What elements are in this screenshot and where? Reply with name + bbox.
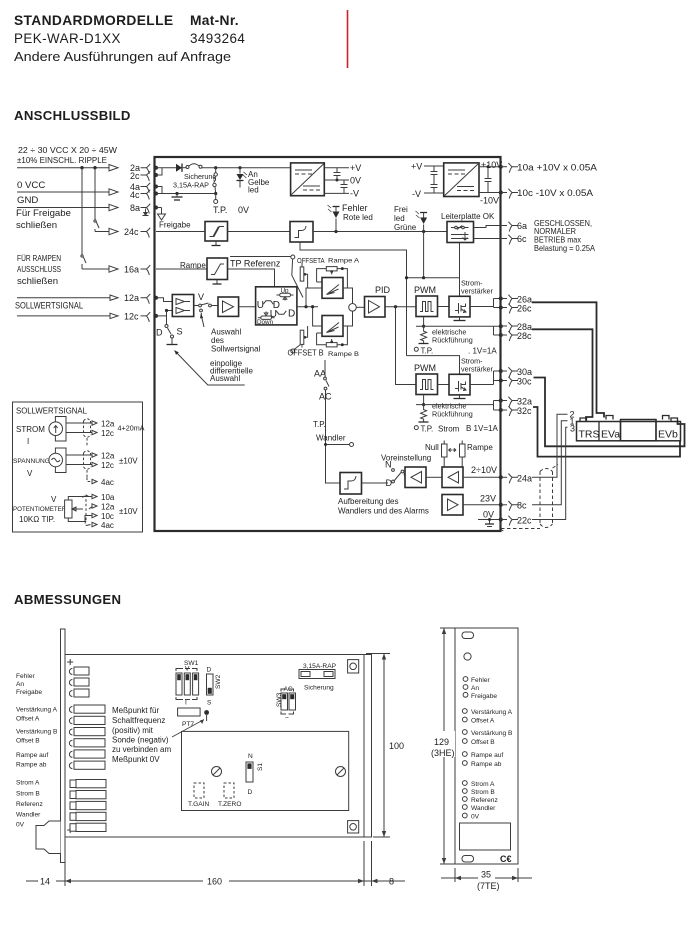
node supply-16a tap xyxy=(80,166,83,169)
capacitor C4 xyxy=(431,180,438,194)
node supply-24c tap xyxy=(93,166,96,169)
legend box xyxy=(13,402,143,532)
wire 12a jog xyxy=(156,298,172,302)
wire relay to MOSFET A xyxy=(459,243,461,297)
svg-text:led: led xyxy=(248,186,259,195)
svg-text:U: U xyxy=(257,300,264,311)
callout line Messpunkt xyxy=(172,720,204,738)
MOSFET output stage A xyxy=(449,296,470,317)
svg-text:AUSSCHLUSS: AUSSCHLUSS xyxy=(17,265,61,274)
connector EVb cell xyxy=(655,422,657,441)
ramp generator U4 xyxy=(207,258,228,280)
wire LED green down xyxy=(423,232,425,278)
wire down to Aufbereitung xyxy=(326,445,341,484)
svg-text:Referenz: Referenz xyxy=(16,801,43,808)
svg-text:Offset B: Offset B xyxy=(471,739,495,746)
svg-text:Rampe: Rampe xyxy=(467,443,493,452)
pot connector 5 xyxy=(69,750,105,758)
wire 0V out xyxy=(324,179,349,181)
pin 8c xyxy=(501,504,508,506)
screw cross bottom xyxy=(67,827,73,833)
svg-text:S: S xyxy=(177,327,183,337)
node fuse tap xyxy=(214,166,217,169)
switch arm offset A xyxy=(292,259,303,297)
screw hole xyxy=(464,653,471,660)
svg-text:EVa: EVa xyxy=(601,429,620,441)
PWM modulator B xyxy=(416,374,438,395)
wire spannung 12c xyxy=(66,464,92,466)
svg-text:N: N xyxy=(385,460,392,470)
wire pot 10a xyxy=(68,497,92,501)
buffer pair U5 xyxy=(172,295,193,317)
pin 22c xyxy=(501,519,508,521)
U/D block U7 xyxy=(256,287,297,325)
LED An Gelbe led xyxy=(239,168,241,174)
panel outline xyxy=(455,628,518,864)
svg-text:32a: 32a xyxy=(517,397,532,407)
svg-text:10a: 10a xyxy=(101,493,115,502)
svg-text:. 1V=1A: . 1V=1A xyxy=(468,347,497,356)
svg-text:12c: 12c xyxy=(124,312,139,322)
wire 8c sense line 1 xyxy=(532,421,568,505)
dimension 129 xyxy=(431,628,455,864)
wire 0V to pin 22c xyxy=(478,519,501,521)
svg-text:(7TE): (7TE) xyxy=(477,881,500,891)
svg-text:10KΩ TIP.: 10KΩ TIP. xyxy=(19,515,55,524)
svg-text:2÷10V: 2÷10V xyxy=(471,465,497,475)
svg-text:(positiv) mit: (positiv) mit xyxy=(112,726,154,735)
svg-text:Strom B: Strom B xyxy=(16,791,40,798)
svg-text:I: I xyxy=(27,437,29,446)
svg-text:ANSCHLUSSBILD: ANSCHLUSSBILD xyxy=(14,108,131,123)
label Messpunkt block xyxy=(112,706,171,764)
svg-text:30a: 30a xyxy=(517,367,532,377)
chassis arrow 8a outside xyxy=(143,209,149,216)
svg-text:TP Referenz: TP Referenz xyxy=(230,259,281,269)
pin 30c xyxy=(501,380,508,382)
svg-text:129: 129 xyxy=(434,737,449,747)
wire 32c to connector xyxy=(533,407,680,457)
svg-text:GND: GND xyxy=(17,195,38,206)
svg-text:Meßpunkt 0V: Meßpunkt 0V xyxy=(112,755,160,764)
diode D1 xyxy=(176,164,182,172)
wire +V in xyxy=(424,165,444,167)
test point dot xyxy=(204,710,209,715)
wire step to relay xyxy=(313,231,447,233)
svg-text:Offset A: Offset A xyxy=(16,716,40,723)
pin 26a xyxy=(501,298,508,300)
svg-text:AC: AC xyxy=(284,686,293,693)
wire 12c xyxy=(17,315,110,317)
svg-text:26c: 26c xyxy=(517,304,532,314)
svg-text:+V: +V xyxy=(350,163,361,173)
wire to pin 32a/32c xyxy=(494,401,501,411)
node 12c entry xyxy=(154,314,158,318)
svg-text:2c: 2c xyxy=(130,171,140,181)
svg-text:S: S xyxy=(207,700,212,707)
svg-text:D: D xyxy=(248,789,253,796)
pin 26c xyxy=(501,307,508,309)
arrow 16a xyxy=(109,266,118,272)
test point offset A xyxy=(291,255,295,259)
svg-text:Rote led: Rote led xyxy=(343,213,373,222)
pot connector 1 xyxy=(69,705,105,713)
svg-text:4+20mA: 4+20mA xyxy=(118,424,145,433)
node clip to 0V rail xyxy=(214,192,217,195)
svg-text:Verstärkung B: Verstärkung B xyxy=(471,730,513,737)
svg-text:verstärker: verstärker xyxy=(461,287,494,296)
svg-text:Null: Null xyxy=(425,443,439,452)
wire 4a/4c join xyxy=(156,187,162,194)
pin 10a xyxy=(501,166,508,168)
test point Wandler xyxy=(326,444,350,446)
svg-text:Offset A: Offset A xyxy=(471,718,495,725)
monoflop step block U3 xyxy=(290,222,313,243)
svg-text:±10V: ±10V xyxy=(119,507,138,516)
node PID branch xyxy=(394,305,397,308)
pin 6a xyxy=(501,225,508,227)
pin 28c xyxy=(501,334,508,336)
svg-text:PWM: PWM xyxy=(414,285,436,295)
svg-text:POTENTIOMETER: POTENTIOMETER xyxy=(13,506,67,513)
pot connector 6 xyxy=(69,761,105,769)
led connector 3 xyxy=(69,689,89,697)
capacitor C1 xyxy=(334,168,341,182)
pin 32c xyxy=(501,409,508,411)
svg-text:Sonde (negativ): Sonde (negativ) xyxy=(112,736,169,745)
svg-text:3,15A-RAP: 3,15A-RAP xyxy=(303,663,337,670)
svg-text:±10% EINSCHL. RIPPLE: ±10% EINSCHL. RIPPLE xyxy=(17,156,107,165)
svg-text:D: D xyxy=(207,667,212,674)
jack 0V xyxy=(462,813,467,818)
arrow supply xyxy=(109,165,118,171)
wire sum to PID xyxy=(356,306,364,308)
bracket bottom right xyxy=(348,821,359,833)
svg-text:Referenz: Referenz xyxy=(471,797,498,804)
trimmer T.ZERO xyxy=(224,783,234,798)
svg-text:23V: 23V xyxy=(480,494,496,504)
pin 32a xyxy=(501,400,508,402)
svg-text:Verstärkung B: Verstärkung B xyxy=(16,729,58,736)
switch Freigabe external xyxy=(94,168,96,219)
red separator line xyxy=(347,10,349,68)
potentiometer symbol xyxy=(65,500,81,518)
svg-text:14: 14 xyxy=(40,877,50,887)
svg-text:12a: 12a xyxy=(101,503,115,512)
label field xyxy=(460,823,511,850)
svg-text:22 ÷ 30 VCC X 20 ÷ 45W: 22 ÷ 30 VCC X 20 ÷ 45W xyxy=(18,146,117,155)
svg-text:Schaltfrequenz: Schaltfrequenz xyxy=(112,716,165,725)
wire supply xyxy=(17,167,109,169)
wire supply rail to diode xyxy=(156,167,176,169)
svg-text:Frei: Frei xyxy=(394,205,408,214)
node 4c entry xyxy=(154,192,158,196)
svg-text:N: N xyxy=(248,753,253,760)
wire PWM B to driver xyxy=(438,384,450,386)
svg-text:-10V: -10V xyxy=(480,196,499,206)
svg-text:schließen: schließen xyxy=(17,276,58,287)
arrow 12a xyxy=(110,295,118,300)
callout einpolige differentielle Auswahl xyxy=(175,351,254,386)
svg-text:3: 3 xyxy=(570,424,575,434)
amp preset 1 xyxy=(405,467,426,488)
wire branch to amp A input xyxy=(306,288,322,307)
svg-text:Rampe auf: Rampe auf xyxy=(471,752,503,759)
svg-text:D: D xyxy=(288,309,295,320)
wire +V out xyxy=(324,167,349,169)
svg-text:Leiterplatte OK: Leiterplatte OK xyxy=(441,212,495,221)
ground 0V out xyxy=(488,518,491,521)
svg-text:I: I xyxy=(185,700,187,707)
dimension 35 xyxy=(441,868,532,891)
wire to 24c xyxy=(95,231,109,233)
svg-text:Andere Ausführungen auf Anfrag: Andere Ausführungen auf Anfrage xyxy=(14,49,231,64)
jack Wandler xyxy=(462,805,467,810)
potentiometer offset A xyxy=(300,263,307,289)
connector mid block xyxy=(621,420,657,441)
svg-text:OFFSETA: OFFSETA xyxy=(297,256,325,265)
LED Fehler rote xyxy=(328,203,373,233)
svg-text:Grüne: Grüne xyxy=(394,223,417,232)
svg-text:Freigabe: Freigabe xyxy=(159,221,191,230)
svg-text:Rampe A: Rampe A xyxy=(328,258,360,265)
svg-text:Sollwertsignal: Sollwertsignal xyxy=(211,345,261,354)
pin 10c xyxy=(501,192,508,194)
svg-text:Rückführung: Rückführung xyxy=(432,336,473,345)
svg-text:+V: +V xyxy=(411,162,422,172)
node LED An tap xyxy=(238,166,241,169)
svg-text:Mat-Nr.: Mat-Nr. xyxy=(190,13,239,28)
wire output A xyxy=(470,306,494,308)
node 2c entry xyxy=(154,173,158,177)
screw cross top xyxy=(67,659,73,665)
callout Auswahl des Sollwertsignal xyxy=(200,314,261,354)
svg-text:Fehler: Fehler xyxy=(342,203,368,213)
daughter module outline xyxy=(182,731,349,810)
svg-text:V: V xyxy=(27,469,33,478)
trimmer PT7 xyxy=(178,708,201,716)
svg-text:10c: 10c xyxy=(101,512,114,521)
pot Offset A xyxy=(462,717,467,722)
svg-text:10c -10V x 0.05A: 10c -10V x 0.05A xyxy=(517,188,593,198)
wire +10V to pin 10a xyxy=(479,166,501,168)
svg-text:Verstärkung A: Verstärkung A xyxy=(16,707,58,714)
test point TP A xyxy=(414,347,418,351)
arrow 12c xyxy=(110,313,118,318)
svg-text:3,15A-RAP: 3,15A-RAP xyxy=(173,181,209,190)
svg-text:12a: 12a xyxy=(101,452,115,461)
switch SW3 xyxy=(276,686,296,722)
pin 6c xyxy=(501,238,508,240)
wire PWM A feedback tap xyxy=(423,317,425,327)
arrow GND xyxy=(109,204,118,210)
MOSFET output stage B xyxy=(449,374,470,395)
svg-text:10a +10V x 0.05A: 10a +10V x 0.05A xyxy=(517,163,597,173)
svg-text:32c: 32c xyxy=(517,406,532,416)
svg-text:Freigabe: Freigabe xyxy=(16,689,42,696)
board labels left xyxy=(16,673,58,829)
svg-text:STROM: STROM xyxy=(16,425,45,434)
svg-text:Fehler: Fehler xyxy=(471,677,490,684)
pot Offset B xyxy=(462,739,467,744)
resistor feedback A xyxy=(421,326,427,343)
slot bottom xyxy=(462,856,474,863)
node 2a entry xyxy=(154,166,158,170)
wire 2a/2c join xyxy=(156,168,162,175)
led An xyxy=(463,685,468,690)
wire strom 12a xyxy=(66,422,92,424)
svg-text:0V: 0V xyxy=(16,822,25,829)
connector tab TRS xyxy=(580,418,587,422)
board outline xyxy=(65,655,364,838)
svg-text:Belastung = 0.25A: Belastung = 0.25A xyxy=(534,243,595,253)
wire enable loop B xyxy=(407,356,460,375)
Aufbereitung block U9 xyxy=(340,473,362,495)
svg-text:Wandler: Wandler xyxy=(316,434,346,443)
switch D/S differential xyxy=(156,311,183,345)
svg-text:T.P.: T.P. xyxy=(421,425,434,434)
PID controller U8 xyxy=(365,297,386,318)
svg-text:Freigabe: Freigabe xyxy=(471,693,497,700)
chassis arrow 8a xyxy=(156,207,162,209)
led Fehler xyxy=(463,677,468,682)
screw left xyxy=(212,767,222,777)
svg-text:T.GAIN: T.GAIN xyxy=(188,801,209,808)
switch Rampen external xyxy=(81,168,83,254)
resistor feedback B xyxy=(421,405,427,422)
dimension 160 xyxy=(26,841,405,887)
svg-text:12c: 12c xyxy=(101,461,114,470)
bracket top right xyxy=(348,660,359,673)
svg-text:SOLLWERTSIGNAL: SOLLWERTSIGNAL xyxy=(15,301,83,311)
jack Strom B xyxy=(462,789,467,794)
svg-text:24c: 24c xyxy=(124,227,139,237)
led Freigabe xyxy=(463,692,468,697)
wire PID to PWM B xyxy=(396,307,417,385)
svg-text:0 VCC: 0 VCC xyxy=(17,180,45,191)
svg-text:OFFSET B: OFFSET B xyxy=(288,349,324,358)
svg-text:Rampe ab: Rampe ab xyxy=(471,761,502,768)
svg-text:3493264: 3493264 xyxy=(190,31,245,46)
svg-text:0V: 0V xyxy=(350,176,361,186)
svg-text:B 1V=1A: B 1V=1A xyxy=(466,424,498,433)
potentiometer Rampe preset xyxy=(453,441,494,468)
svg-text:Wandler: Wandler xyxy=(471,805,496,812)
svg-text:PID: PID xyxy=(375,285,391,295)
svg-text:T.P.: T.P. xyxy=(421,347,434,356)
amp A gain block xyxy=(322,278,343,299)
wire relay to 6c xyxy=(474,238,501,240)
svg-text:160: 160 xyxy=(207,877,222,887)
wire -V out xyxy=(324,192,349,194)
wire to pin 24a xyxy=(463,476,501,478)
feedback loop Rampe B xyxy=(317,326,348,345)
current source symbol xyxy=(49,417,66,442)
wire strom 12c xyxy=(66,432,92,434)
svg-text:An: An xyxy=(16,681,24,688)
shield strom xyxy=(84,419,91,447)
wire ramp out to U/D xyxy=(228,269,275,287)
front rail bar xyxy=(61,629,66,863)
svg-text:4ac: 4ac xyxy=(101,478,114,487)
slot top xyxy=(462,632,474,639)
svg-text:zu verbinden am: zu verbinden am xyxy=(112,745,171,754)
test point TP B xyxy=(414,426,418,430)
test point offset B xyxy=(291,349,295,353)
svg-text:Rampe B: Rampe B xyxy=(328,351,359,358)
svg-text:-V: -V xyxy=(412,189,421,199)
node 4a entry xyxy=(154,185,158,189)
svg-text:Rampe ab: Rampe ab xyxy=(16,762,47,769)
capacitor C5 xyxy=(485,165,492,192)
svg-text:V: V xyxy=(185,666,190,673)
wire pot 12a wiper xyxy=(81,507,93,510)
jack connector 2 xyxy=(70,791,106,799)
dimension 100 xyxy=(366,654,404,838)
svg-text:12a: 12a xyxy=(124,293,139,303)
wire 22c sense line 3 xyxy=(532,427,568,519)
amp 23V buffer xyxy=(442,495,463,516)
arrow 24c xyxy=(109,228,118,234)
svg-text:PWM: PWM xyxy=(414,363,436,373)
svg-text:led: led xyxy=(394,214,405,223)
potentiometer Rampe B xyxy=(326,343,337,347)
wire amp A out xyxy=(343,288,353,304)
header title block xyxy=(14,13,245,64)
wire PWM A to driver xyxy=(438,306,450,308)
svg-text:TRS: TRS xyxy=(579,429,600,441)
svg-text:Down: Down xyxy=(257,319,274,326)
amp preset 2 xyxy=(442,467,463,488)
svg-text:PT7: PT7 xyxy=(182,721,194,728)
svg-text:24a: 24a xyxy=(517,474,532,484)
capacitor C2 xyxy=(341,180,348,193)
jack Strom A xyxy=(462,781,467,786)
svg-text:Wandlers und des Alarms: Wandlers und des Alarms xyxy=(338,507,429,516)
svg-text:V: V xyxy=(51,495,57,504)
pot connector 2 xyxy=(69,716,105,724)
svg-text:S1: S1 xyxy=(257,763,264,771)
svg-text:30c: 30c xyxy=(517,377,532,387)
wire 28c to connector xyxy=(532,329,593,420)
pin 24a xyxy=(501,476,508,478)
switch S1 xyxy=(246,753,264,796)
wire -10V to pin 10c xyxy=(479,192,501,194)
connector tab EVa xyxy=(606,416,613,420)
svg-text:±10V: ±10V xyxy=(119,457,138,466)
screw right xyxy=(336,767,346,777)
svg-text:4c: 4c xyxy=(130,190,140,200)
test point T.P. 0V xyxy=(215,194,217,200)
svg-text:Wandler: Wandler xyxy=(16,812,41,819)
wire branch to amp B input xyxy=(313,307,322,326)
wire to pin 26a xyxy=(494,299,501,308)
jack connector 1 xyxy=(70,780,106,788)
connector body xyxy=(577,422,681,441)
node 8a entry xyxy=(154,206,158,210)
buffer U6 xyxy=(218,297,239,316)
shield spannung xyxy=(84,451,91,478)
wire 12a xyxy=(17,297,110,299)
svg-text:(3HE): (3HE) xyxy=(431,748,455,758)
feedback loop Rampe A xyxy=(317,269,348,288)
svg-text:Fehler: Fehler xyxy=(16,673,35,680)
ground 0V rail xyxy=(175,192,178,195)
jack connector 3 xyxy=(70,801,106,809)
svg-text:SW3: SW3 xyxy=(276,692,283,707)
wire spannung 12a xyxy=(66,454,92,456)
svg-text:An: An xyxy=(471,685,479,692)
